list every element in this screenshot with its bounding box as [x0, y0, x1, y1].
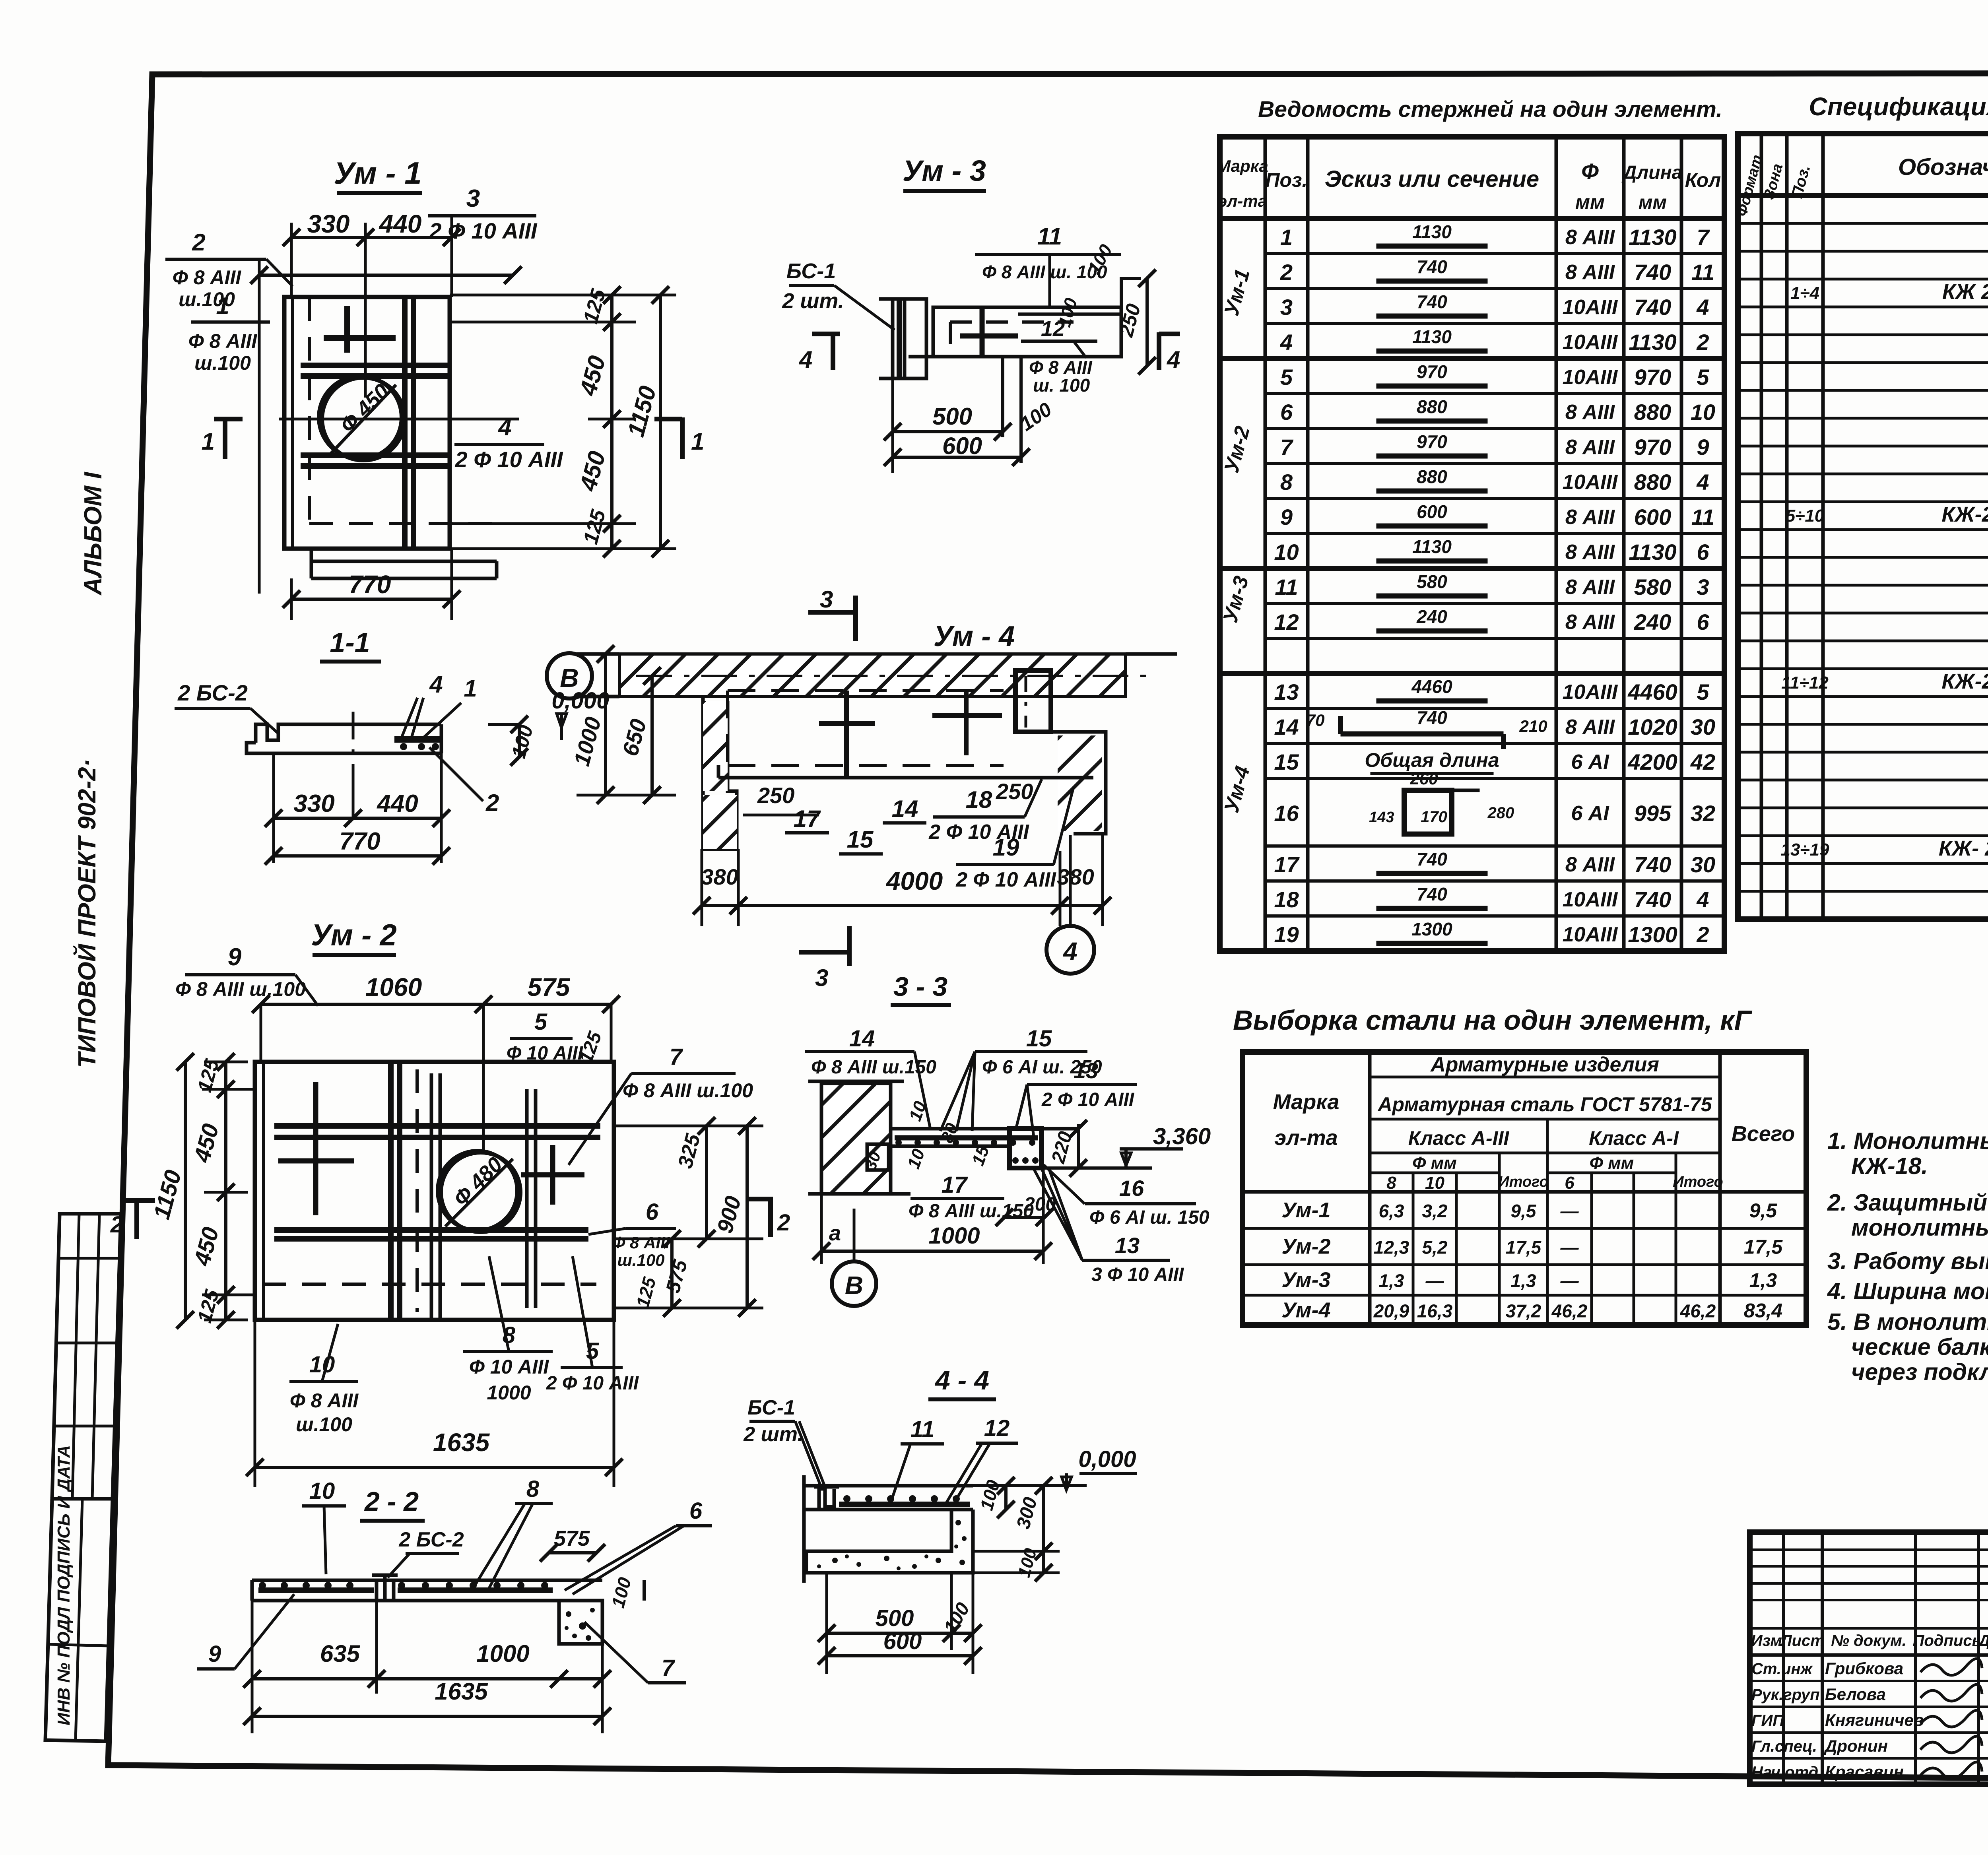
svg-text:7: 7 [662, 1655, 676, 1681]
svg-text:Обозначение: Обозначение [1898, 154, 1988, 180]
svg-text:5: 5 [534, 1009, 547, 1035]
svg-text:КЖ-18.: КЖ-18. [1851, 1153, 1928, 1179]
svg-text:Всего: Всего [1732, 1122, 1795, 1146]
svg-text:Ум-2: Ум-2 [1281, 1235, 1330, 1259]
svg-text:1,3: 1,3 [1511, 1271, 1536, 1291]
svg-text:18: 18 [1274, 887, 1299, 912]
svg-text:Лист: Лист [1780, 1632, 1825, 1649]
svg-text:6 АI: 6 АI [1571, 751, 1609, 774]
svg-text:2 Ф 10 АIII: 2 Ф 10 АIII [546, 1373, 639, 1394]
svg-text:740: 740 [1417, 256, 1447, 277]
svg-text:1: 1 [691, 428, 704, 455]
svg-text:6: 6 [689, 1498, 703, 1524]
svg-text:8 АIII: 8 АIII [1565, 576, 1615, 599]
svg-text:Ум-3: Ум-3 [1281, 1268, 1330, 1292]
svg-text:880: 880 [1634, 470, 1671, 495]
svg-text:1130: 1130 [1412, 326, 1452, 347]
svg-text:240: 240 [1634, 609, 1671, 635]
svg-text:5÷10: 5÷10 [1786, 506, 1825, 526]
svg-text:970: 970 [1417, 361, 1447, 382]
svg-text:600: 600 [883, 1628, 922, 1654]
svg-text:11÷12: 11÷12 [1781, 673, 1829, 693]
svg-text:КЖ-25: КЖ-25 [1941, 669, 1988, 693]
svg-text:12: 12 [984, 1415, 1010, 1441]
svg-text:16,3: 16,3 [1417, 1301, 1453, 1321]
svg-text:2 Ф 10 АIII: 2 Ф 10 АIII [429, 218, 538, 243]
svg-text:Ф мм: Ф мм [1412, 1153, 1457, 1173]
svg-text:8 АIII: 8 АIII [1565, 261, 1615, 284]
svg-text:12,3: 12,3 [1374, 1237, 1409, 1258]
svg-text:Ф 8 АIII: Ф 8 АIII [188, 330, 258, 352]
svg-text:мм: мм [1575, 191, 1605, 213]
svg-text:Итого: Итого [1498, 1174, 1548, 1190]
svg-text:17,5: 17,5 [1506, 1237, 1542, 1258]
svg-text:ИНВ № ПОДЛ ПОДПИСЬ И ДАТА: ИНВ № ПОДЛ ПОДПИСЬ И ДАТА [54, 1445, 74, 1725]
svg-text:1,3: 1,3 [1379, 1271, 1404, 1291]
svg-text:1÷4: 1÷4 [1790, 283, 1819, 303]
svg-text:Ум - 4: Ум - 4 [934, 621, 1015, 652]
svg-text:4: 4 [799, 346, 812, 373]
svg-text:7: 7 [1280, 435, 1294, 460]
svg-text:В: В [845, 1271, 863, 1300]
svg-text:16: 16 [1274, 801, 1299, 826]
svg-text:880: 880 [1417, 396, 1447, 417]
svg-text:Ф 8 АIII ш.100: Ф 8 АIII ш.100 [175, 978, 306, 1000]
svg-text:280: 280 [1487, 804, 1514, 822]
svg-text:575: 575 [528, 973, 571, 1001]
svg-text:17: 17 [942, 1172, 968, 1198]
svg-text:11: 11 [1691, 504, 1714, 530]
svg-text:4: 4 [1696, 887, 1709, 912]
svg-text:Ф 8 АIII: Ф 8 АIII [290, 1389, 359, 1412]
svg-text:монолитных участках принять: монолитных участках принять 10мм. [1851, 1215, 1988, 1241]
svg-text:740: 740 [1417, 707, 1447, 728]
svg-text:2. Защитный слой бетона для: 2. Защитный слой бетона для рабочей арма… [1827, 1189, 1988, 1216]
svg-text:7: 7 [670, 1044, 683, 1070]
svg-text:4460: 4460 [1627, 679, 1677, 704]
svg-text:10: 10 [309, 1478, 335, 1504]
svg-text:14: 14 [1274, 714, 1299, 739]
svg-text:440: 440 [376, 790, 418, 817]
svg-text:18: 18 [966, 786, 992, 813]
svg-text:Ст.инж: Ст.инж [1751, 1660, 1813, 1678]
svg-text:Длина: Длина [1621, 162, 1683, 183]
svg-text:Гл.спец.: Гл.спец. [1751, 1738, 1817, 1755]
svg-text:Марка: Марка [1217, 157, 1268, 175]
svg-text:ГИП: ГИП [1751, 1712, 1784, 1729]
svg-text:10АIII: 10АIII [1563, 681, 1618, 704]
svg-text:6: 6 [1280, 400, 1293, 425]
svg-text:мм: мм [1639, 192, 1667, 213]
svg-text:1. Монолитные участки замаркир: 1. Монолитные участки замаркированы на ч… [1827, 1128, 1988, 1154]
svg-text:2 Ф 10 АIII: 2 Ф 10 АIII [1041, 1089, 1135, 1110]
svg-text:Ф 8 АIII ш.100: Ф 8 АIII ш.100 [623, 1079, 753, 1102]
svg-text:4000: 4000 [885, 867, 943, 895]
svg-text:260: 260 [1409, 769, 1438, 788]
svg-text:0,000: 0,000 [1078, 1446, 1136, 1472]
svg-text:4460: 4460 [1411, 676, 1452, 697]
svg-text:1,3: 1,3 [1749, 1269, 1777, 1292]
svg-text:1020: 1020 [1628, 714, 1677, 739]
svg-text:210: 210 [1519, 717, 1547, 735]
svg-text:Нач.отд: Нач.отд [1751, 1764, 1818, 1781]
svg-text:Ум - 3: Ум - 3 [903, 154, 986, 187]
svg-text:АЛЬБОМ I: АЛЬБОМ I [80, 472, 107, 596]
svg-text:Белова: Белова [1825, 1685, 1886, 1704]
svg-text:Спецификация элементов монолит: Спецификация элементов монолитной констр… [1809, 92, 1988, 121]
svg-text:ш. 100: ш. 100 [1033, 375, 1090, 396]
svg-text:5,2: 5,2 [1422, 1237, 1448, 1258]
svg-text:740: 740 [1634, 887, 1671, 912]
svg-text:970: 970 [1634, 365, 1671, 390]
svg-text:16: 16 [1119, 1176, 1144, 1201]
svg-text:600: 600 [1634, 504, 1671, 530]
svg-text:Ф: Ф [1581, 159, 1599, 184]
svg-text:3: 3 [1280, 295, 1293, 320]
svg-text:11: 11 [1037, 223, 1062, 250]
svg-text:580: 580 [1634, 574, 1671, 600]
svg-text:995: 995 [1634, 801, 1672, 826]
svg-text:Ведомость стержней на один эле: Ведомость стержней на один элемент. [1258, 97, 1722, 122]
svg-text:9,5: 9,5 [1749, 1199, 1778, 1222]
svg-text:380: 380 [701, 864, 738, 889]
svg-text:2 шт.: 2 шт. [743, 1423, 803, 1446]
svg-text:эл-та: эл-та [1218, 192, 1267, 210]
svg-text:8 АIII: 8 АIII [1565, 401, 1615, 424]
svg-text:2: 2 [1696, 330, 1709, 355]
svg-text:а: а [829, 1221, 841, 1245]
svg-text:13÷19: 13÷19 [1780, 840, 1829, 860]
svg-text:20,9: 20,9 [1373, 1301, 1409, 1321]
svg-text:8 АIII: 8 АIII [1565, 541, 1615, 564]
svg-text:2: 2 [777, 1210, 790, 1236]
svg-text:3 - 3: 3 - 3 [893, 972, 947, 1002]
svg-text:9: 9 [208, 1641, 221, 1667]
svg-text:3: 3 [466, 185, 480, 212]
svg-text:1300: 1300 [1628, 922, 1677, 947]
svg-text:770: 770 [339, 828, 380, 855]
svg-text:Ф 10 АIII: Ф 10 АIII [507, 1043, 584, 1064]
svg-text:Кол: Кол [1685, 169, 1721, 191]
svg-text:880: 880 [1417, 466, 1447, 487]
svg-text:2: 2 [192, 229, 205, 256]
svg-text:Класс А-I: Класс А-I [1589, 1127, 1679, 1149]
svg-text:10АIII: 10АIII [1563, 888, 1618, 911]
svg-text:Ф 8 АIII: Ф 8 АIII [612, 1233, 670, 1252]
svg-text:10АIII: 10АIII [1563, 331, 1618, 354]
svg-text:5. В монолитных участках, опи: 5. В монолитных участках, опирающихся на… [1827, 1309, 1988, 1335]
svg-text:Итого: Итого [1673, 1174, 1723, 1190]
svg-text:3,360: 3,360 [1153, 1123, 1211, 1149]
svg-text:Ум - 1: Ум - 1 [334, 155, 421, 190]
svg-text:8: 8 [526, 1476, 540, 1502]
svg-text:6: 6 [1697, 609, 1709, 635]
svg-text:2 шт.: 2 шт. [782, 289, 844, 313]
svg-text:0,000: 0,000 [551, 688, 609, 714]
svg-text:Поз.: Поз. [1266, 169, 1308, 191]
svg-text:83,4: 83,4 [1744, 1300, 1782, 1322]
svg-text:3. Работу выполнять согласно: 3. Работу выполнять согласно СНиП III — … [1827, 1248, 1988, 1274]
svg-text:12: 12 [1274, 609, 1299, 635]
svg-text:2: 2 [1280, 260, 1293, 285]
svg-text:10АIII: 10АIII [1563, 296, 1618, 319]
svg-text:740: 740 [1634, 852, 1671, 877]
svg-text:13: 13 [1274, 679, 1299, 704]
svg-text:Выборка стали на один элемент: Выборка стали на один элемент, кГ [1233, 1005, 1753, 1036]
svg-text:8 АIII: 8 АIII [1565, 436, 1615, 459]
svg-text:1300: 1300 [1411, 919, 1452, 939]
svg-text:9: 9 [1280, 504, 1293, 530]
svg-text:575: 575 [554, 1527, 590, 1550]
svg-text:17: 17 [1274, 852, 1300, 877]
svg-text:37,2: 37,2 [1506, 1301, 1541, 1321]
svg-text:600: 600 [942, 433, 982, 459]
svg-text:Ум-4: Ум-4 [1281, 1298, 1330, 1322]
svg-text:8 АIII: 8 АIII [1565, 716, 1615, 739]
svg-text:10АIII: 10АIII [1563, 366, 1618, 389]
svg-text:Рук.груп: Рук.груп [1751, 1686, 1820, 1704]
svg-text:эл-та: эл-та [1274, 1126, 1338, 1150]
svg-text:7: 7 [1697, 225, 1710, 250]
svg-text:8 АIII: 8 АIII [1565, 506, 1615, 529]
svg-text:Дата: Дата [1978, 1632, 1988, 1649]
svg-text:1: 1 [1280, 225, 1293, 250]
svg-text:11: 11 [1275, 574, 1298, 600]
svg-text:740: 740 [1417, 849, 1447, 869]
svg-text:635: 635 [320, 1640, 361, 1667]
svg-text:—: — [1560, 1237, 1579, 1258]
svg-text:8: 8 [1280, 470, 1293, 495]
svg-text:8 АIII: 8 АIII [1565, 226, 1615, 249]
svg-text:880: 880 [1634, 400, 1671, 425]
svg-text:10: 10 [1691, 400, 1715, 425]
svg-text:ческие балки, арматуру прива: ческие балки, арматуру приварить к этим … [1851, 1334, 1988, 1360]
svg-text:42: 42 [1690, 749, 1715, 774]
svg-text:8: 8 [1386, 1173, 1396, 1193]
svg-text:3 Ф 10 АIII: 3 Ф 10 АIII [1091, 1264, 1184, 1285]
svg-text:14: 14 [849, 1026, 875, 1052]
svg-text:740: 740 [1417, 884, 1447, 904]
svg-text:1130: 1130 [1629, 225, 1676, 250]
svg-text:240: 240 [1416, 606, 1447, 627]
svg-text:13: 13 [1115, 1233, 1140, 1258]
svg-text:1130: 1130 [1412, 536, 1452, 557]
svg-text:БС-1: БС-1 [747, 1396, 795, 1419]
svg-text:32: 32 [1691, 801, 1715, 826]
svg-text:4: 4 [1062, 937, 1077, 966]
svg-text:17,5: 17,5 [1744, 1236, 1783, 1258]
svg-text:КЖ-25: КЖ-25 [1941, 503, 1988, 526]
svg-text:2 - 2: 2 - 2 [364, 1486, 419, 1517]
svg-text:250: 250 [757, 783, 794, 808]
svg-text:2 БС-2: 2 БС-2 [177, 680, 248, 705]
svg-text:600: 600 [1417, 501, 1447, 522]
svg-text:9: 9 [228, 943, 242, 971]
svg-text:Изм: Изм [1751, 1632, 1782, 1649]
svg-text:4: 4 [429, 671, 443, 698]
svg-text:250: 250 [996, 779, 1033, 804]
svg-text:30: 30 [1691, 714, 1715, 739]
svg-text:4: 4 [1696, 295, 1709, 320]
svg-text:19: 19 [1274, 922, 1299, 947]
svg-text:4: 4 [1696, 470, 1709, 495]
svg-text:—: — [1425, 1271, 1444, 1291]
svg-text:1000: 1000 [476, 1640, 529, 1667]
svg-text:1-1: 1-1 [330, 627, 370, 658]
svg-text:1: 1 [202, 428, 215, 455]
svg-text:1000: 1000 [487, 1382, 531, 1404]
svg-text:380: 380 [1057, 864, 1094, 889]
svg-text:15: 15 [1026, 1026, 1052, 1052]
svg-text:4 - 4: 4 - 4 [934, 1365, 989, 1395]
svg-text:6: 6 [646, 1199, 659, 1225]
svg-text:4. Ширина монолитного участка: 4. Ширина монолитного участка УМ-4 дана … [1827, 1278, 1988, 1304]
svg-text:740: 740 [1634, 260, 1671, 285]
svg-text:10: 10 [1274, 539, 1299, 565]
svg-text:8 АIII: 8 АIII [1565, 611, 1615, 634]
svg-text:2: 2 [1696, 922, 1709, 947]
svg-text:Подпись: Подпись [1913, 1632, 1982, 1649]
svg-text:4: 4 [498, 414, 511, 440]
svg-text:9: 9 [1697, 435, 1709, 460]
svg-text:—: — [1560, 1201, 1579, 1221]
svg-text:970: 970 [1417, 431, 1447, 452]
svg-text:Арматурная сталь ГОСТ 5781-75: Арматурная сталь ГОСТ 5781-75 [1377, 1093, 1712, 1116]
svg-text:1060: 1060 [365, 973, 422, 1001]
svg-text:17: 17 [794, 805, 821, 832]
svg-text:через подкладки: через подкладки [1851, 1359, 1988, 1385]
svg-text:Класс А-III: Класс А-III [1408, 1127, 1510, 1149]
svg-text:1: 1 [216, 293, 229, 319]
svg-text:10: 10 [1425, 1173, 1444, 1193]
svg-text:6,3: 6,3 [1379, 1201, 1404, 1221]
svg-text:1635: 1635 [435, 1678, 488, 1705]
svg-text:9,5: 9,5 [1511, 1201, 1537, 1221]
svg-text:6: 6 [1697, 539, 1709, 565]
svg-text:2 БС-2: 2 БС-2 [398, 1528, 464, 1551]
svg-text:1130: 1130 [1412, 221, 1452, 242]
svg-text:330: 330 [293, 790, 334, 817]
svg-text:—: — [1560, 1271, 1579, 1291]
svg-text:1130: 1130 [1629, 539, 1676, 565]
svg-text:3: 3 [820, 586, 833, 613]
svg-text:5: 5 [1697, 365, 1709, 390]
svg-text:770: 770 [349, 570, 391, 599]
svg-text:5: 5 [1697, 679, 1709, 704]
svg-text:№ докум.: № докум. [1831, 1632, 1906, 1649]
svg-text:2 Ф 10 АIII: 2 Ф 10 АIII [455, 447, 563, 472]
svg-text:Ум-1: Ум-1 [1281, 1198, 1330, 1222]
svg-text:740: 740 [1417, 291, 1447, 312]
svg-text:Ф 10 АIII: Ф 10 АIII [469, 1356, 549, 1378]
svg-text:6 АI: 6 АI [1571, 802, 1609, 825]
svg-text:19: 19 [993, 834, 1019, 861]
svg-text:2: 2 [110, 1212, 123, 1238]
svg-text:12: 12 [1041, 317, 1065, 341]
svg-text:143: 143 [1369, 809, 1394, 826]
svg-text:8 АIII: 8 АIII [1565, 853, 1615, 876]
svg-text:1000: 1000 [928, 1223, 980, 1249]
svg-text:15: 15 [1274, 749, 1299, 774]
svg-text:1130: 1130 [1629, 330, 1676, 355]
svg-text:Ф 8 АIII: Ф 8 АIII [173, 266, 242, 289]
svg-text:13: 13 [1074, 1058, 1098, 1083]
svg-text:4200: 4200 [1627, 749, 1677, 774]
svg-text:1635: 1635 [433, 1428, 490, 1457]
svg-text:3: 3 [815, 964, 828, 991]
svg-text:4: 4 [1280, 330, 1293, 355]
svg-text:КЖ- 25: КЖ- 25 [1939, 836, 1988, 860]
svg-text:3: 3 [1697, 574, 1709, 600]
svg-text:11: 11 [1691, 260, 1714, 285]
svg-text:46,2: 46,2 [1551, 1301, 1588, 1321]
svg-text:10: 10 [309, 1352, 335, 1378]
svg-text:330: 330 [307, 210, 350, 238]
svg-text:2: 2 [485, 790, 499, 816]
svg-text:440: 440 [379, 210, 422, 238]
svg-text:15: 15 [847, 826, 874, 853]
svg-text:3,2: 3,2 [1422, 1201, 1448, 1221]
svg-text:БС-1: БС-1 [786, 259, 836, 283]
svg-text:Красавин: Красавин [1825, 1762, 1904, 1781]
svg-text:Грибкова: Грибкова [1825, 1659, 1903, 1678]
svg-text:Марка: Марка [1273, 1090, 1340, 1114]
svg-text:740: 740 [1634, 295, 1671, 320]
svg-text:11: 11 [911, 1416, 934, 1442]
svg-text:580: 580 [1417, 571, 1447, 592]
svg-text:Арматурные изделия: Арматурные изделия [1430, 1053, 1659, 1076]
svg-text:30: 30 [1691, 852, 1715, 877]
svg-text:Общая длина: Общая длина [1365, 749, 1499, 771]
svg-text:Эскиз или сечение: Эскиз или сечение [1325, 166, 1539, 192]
svg-text:170: 170 [1421, 808, 1447, 826]
svg-text:КЖ 25: КЖ 25 [1942, 280, 1988, 304]
svg-text:46,2: 46,2 [1680, 1301, 1716, 1321]
svg-text:6: 6 [1565, 1173, 1574, 1193]
svg-text:14: 14 [892, 796, 918, 822]
svg-text:2 Ф 10 АIII: 2 Ф 10 АIII [955, 868, 1056, 891]
svg-text:Ум - 2: Ум - 2 [311, 918, 397, 952]
svg-text:10АIII: 10АIII [1563, 471, 1618, 494]
svg-text:10АIII: 10АIII [1563, 923, 1618, 946]
svg-text:Дронин: Дронин [1824, 1737, 1888, 1755]
svg-text:970: 970 [1634, 435, 1671, 460]
svg-text:500: 500 [932, 403, 972, 430]
svg-text:ш.100: ш.100 [617, 1251, 664, 1269]
svg-text:Ф 6 АI ш. 150: Ф 6 АI ш. 150 [1089, 1207, 1209, 1228]
svg-text:Ф мм: Ф мм [1590, 1153, 1634, 1173]
svg-text:ш.100: ш.100 [194, 352, 251, 374]
svg-text:Княгиничев: Княгиничев [1825, 1711, 1924, 1729]
svg-text:5: 5 [1280, 365, 1293, 390]
svg-text:ТИПОВОЙ ПРОЕКТ 902-2·: ТИПОВОЙ ПРОЕКТ 902-2· [73, 759, 101, 1068]
svg-text:1: 1 [464, 675, 477, 702]
svg-text:70: 70 [1306, 711, 1325, 730]
svg-text:500: 500 [876, 1605, 914, 1631]
svg-text:4: 4 [1167, 346, 1180, 373]
svg-text:ш.100: ш.100 [296, 1413, 352, 1436]
